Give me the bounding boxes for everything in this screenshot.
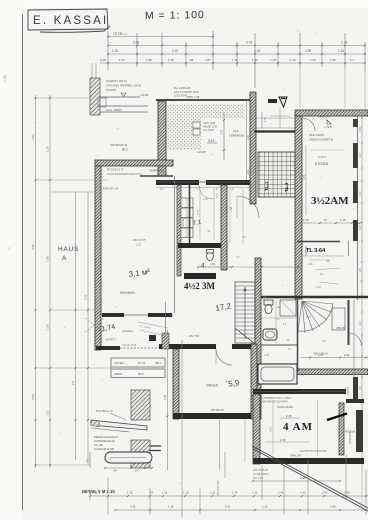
svg-text:LAGE B SCHNITT B: LAGE B SCHNITT B — [309, 138, 333, 142]
svg-text:.40: .40 — [113, 469, 117, 473]
inner dimension vertical x=88 — [87, 192, 89, 465]
dimension marks near handwritten 4 — [198, 266, 232, 268]
svg-text:2.2: 2.2 — [358, 321, 362, 325]
svg-text:2.98: 2.98 — [330, 505, 336, 509]
svg-text:1.10: 1.10 — [262, 505, 268, 509]
svg-text:WG 76/8: WG 76/8 — [189, 334, 200, 338]
svg-text:WOHNEN: WOHNEN — [120, 291, 135, 295]
top dimension line row 4 — [100, 62, 365, 64]
svg-text:4.18: 4.18 — [247, 170, 250, 175]
svg-text:4 AM: 4 AM — [283, 421, 313, 433]
svg-text:1.79 B: 1.79 B — [324, 125, 332, 129]
schnitt W3 hatched wall strip — [90, 78, 100, 115]
svg-text:97.31: 97.31 — [138, 361, 145, 365]
wall lower right wing hatched — [295, 369, 368, 375]
toilet fixture — [207, 251, 214, 260]
svg-text:M = 1: 100: M = 1: 100 — [145, 9, 205, 22]
right dimension vertical — [361, 110, 363, 472]
svg-text:2.6: 2.6 — [358, 268, 362, 272]
svg-text:2.98: 2.98 — [46, 256, 50, 262]
left dimension vertical 1 — [35, 95, 37, 468]
svg-text:DRN 2.17: DRN 2.17 — [318, 115, 331, 119]
kinder bottom wall — [173, 413, 257, 419]
loggia bottom wall — [96, 346, 120, 350]
svg-text:4.35: 4.35 — [130, 505, 136, 509]
svg-text:DRN 104: DRN 104 — [290, 454, 302, 458]
4AM left wall hatched — [253, 394, 260, 464]
right wing left wall hatched — [295, 116, 302, 299]
svg-text:2.5: 2.5 — [46, 410, 50, 415]
svg-text:4½2 3M: 4½2 3M — [184, 281, 216, 291]
svg-text:7,1: 7,1 — [192, 220, 202, 227]
svg-text:FR.DGAS 9.97: FR.DGAS 9.97 — [107, 169, 124, 172]
wall top of terrace block — [156, 99, 256, 101]
corridor dim line extended — [198, 266, 298, 268]
svg-text:3.03: 3.03 — [31, 134, 35, 140]
wall divider right wing — [297, 241, 340, 243]
wc fixture — [264, 300, 273, 305]
4AM room top wall — [253, 389, 346, 394]
stair direction arrow — [244, 287, 246, 339]
right wing interior marks — [310, 259, 330, 261]
4AM top wall step right — [346, 399, 364, 403]
wall mid right wing horizontal — [256, 296, 368, 298]
svg-text:.70: .70 — [323, 218, 327, 222]
svg-text:2.1: 2.1 — [358, 386, 362, 390]
detail sloped slab — [91, 420, 147, 430]
svg-text:1.17: 1.17 — [119, 58, 125, 62]
svg-text:1.35: 1.35 — [308, 263, 313, 266]
svg-text:X-FLUGEN TREPPEN +99.38: X-FLUGEN TREPPEN +99.38 — [106, 84, 141, 88]
svg-text:2.33: 2.33 — [344, 353, 350, 357]
svg-text:LICHTSCHUTZ/PLATTEN: LICHTSCHUTZ/PLATTEN — [300, 450, 327, 453]
svg-text:2.98: 2.98 — [344, 491, 350, 495]
detail pipe capsule — [105, 452, 152, 463]
bathtub — [258, 364, 297, 384]
wohnen left wall hatched — [95, 166, 101, 350]
top dimension line row 1 — [108, 36, 214, 38]
door arc lower right — [349, 333, 362, 346]
title box E. KASSAI — [28, 9, 108, 30]
svg-text:2.38: 2.38 — [286, 414, 292, 418]
svg-text:CAL.IN 23/15: CAL.IN 23/15 — [122, 344, 137, 347]
level table box 2 — [111, 369, 165, 378]
svg-text:CU-ROHR Ø 100: CU-ROHR Ø 100 — [94, 447, 115, 451]
4AM bottom wall — [253, 458, 364, 464]
svg-text:WO ZUST: WO ZUST — [133, 238, 146, 242]
svg-text:+99.38: +99.38 — [140, 93, 149, 97]
svg-text:LOGGIA: LOGGIA — [122, 329, 133, 333]
level table box 1 — [111, 358, 165, 367]
kitchen counter fixtures — [181, 198, 193, 208]
left dimension vertical 2 — [49, 95, 51, 468]
svg-text:1.9: 1.9 — [358, 191, 362, 195]
svg-text:KUCHE: KUCHE — [181, 219, 185, 228]
tiny note lines loggia — [138, 322, 168, 328]
svg-text:1.88: 1.88 — [3, 75, 7, 82]
main dark wall under terrace — [156, 180, 199, 185]
4AM interior vertical lines — [317, 400, 319, 456]
right pier middle segment — [353, 220, 358, 241]
svg-text:1.35: 1.35 — [168, 505, 174, 509]
svg-text:2.1: 2.1 — [320, 273, 324, 276]
svg-text:COLL.PLAT: COLL.PLAT — [174, 95, 188, 98]
svg-text:98.9: 98.9 — [138, 372, 144, 376]
svg-text:A: A — [62, 255, 67, 262]
detail hatched column upper — [131, 390, 150, 420]
svg-text:DRN 7.38: DRN 7.38 — [187, 95, 200, 99]
svg-text:GRN 89° UR: GRN 89° UR — [103, 187, 118, 191]
svg-text:1.15: 1.15 — [340, 218, 346, 222]
svg-text:TERRASSE: TERRASSE — [149, 169, 164, 173]
dark wall kitchen bottom — [178, 243, 222, 248]
svg-text:www. 29/8/N: www. 29/8/N — [106, 108, 122, 112]
terrace dotted surface — [167, 104, 201, 150]
washbasin — [263, 329, 277, 340]
terrace inner dimension vertical — [223, 112, 225, 160]
svg-text:.24: .24 — [134, 469, 138, 473]
svg-text:.74: .74 — [149, 491, 153, 495]
stairwell grid hatch block — [258, 152, 296, 197]
terrace fixture boxes — [193, 122, 200, 128]
svg-text:POLERT: POLERT — [106, 88, 117, 92]
kinder left wall hatched — [173, 349, 179, 419]
dimension vertical x=225 bottom — [224, 452, 226, 478]
wall segment above 4.5 room label — [184, 273, 216, 279]
svg-text:1.18: 1.18 — [270, 58, 276, 62]
stair break line — [235, 328, 255, 344]
svg-text:T.L.1: T.L.1 — [264, 181, 269, 191]
terrace block left wall hatched — [158, 101, 166, 176]
svg-text:2.5: 2.5 — [71, 380, 75, 385]
svg-text:B 939 B: B 939 B — [318, 156, 327, 159]
svg-text:UNTEN -: UNTEN - — [114, 361, 125, 365]
svg-text:2.15: 2.15 — [303, 218, 309, 222]
bottom dimension row A — [253, 480, 340, 482]
svg-text:2.15: 2.15 — [316, 286, 321, 289]
wall stub left of kinder — [149, 335, 156, 341]
svg-text:4.87: 4.87 — [205, 58, 211, 62]
dark bar marker — [268, 99, 277, 103]
top dimension verticals and ticks — [107, 31, 109, 70]
svg-text:5.76: 5.76 — [246, 41, 252, 45]
svg-text:T.L.3: T.L.3 — [284, 182, 289, 192]
door arc kitchen — [237, 196, 259, 218]
svg-text:3½2AM: 3½2AM — [311, 195, 349, 207]
water level symbol — [121, 93, 126, 97]
svg-text:7.08: 7.08 — [31, 394, 35, 400]
svg-text:1.34: 1.34 — [338, 49, 344, 53]
corridor dimension marks — [199, 190, 201, 240]
svg-text:OBEN -: OBEN - — [114, 372, 124, 376]
wc wall vertical hatched — [221, 185, 227, 270]
svg-text:1.74: 1.74 — [232, 491, 238, 495]
svg-text:2.33: 2.33 — [95, 491, 101, 495]
svg-text:RUCK-FENSTERN NUR HOLK: RUCK-FENSTERN NUR HOLK — [107, 173, 142, 176]
top dimension line row 3 — [108, 53, 365, 55]
svg-text:ESSEN: ESSEN — [315, 162, 329, 166]
svg-text:1.08: 1.08 — [230, 207, 233, 212]
svg-text:1.41: 1.41 — [300, 491, 306, 495]
svg-text:1.15: 1.15 — [358, 224, 362, 230]
svg-text:ILA 100: ILA 100 — [94, 443, 103, 447]
vestibule small marks — [261, 112, 263, 128]
wall top of wohnen hatched — [95, 160, 173, 166]
svg-text:ANTRITT: ANTRITT — [105, 338, 116, 342]
svg-text:4.10: 4.10 — [270, 427, 273, 432]
svg-text:1.10: 1.10 — [183, 491, 189, 495]
loggia door swing dashed X — [85, 318, 104, 332]
svg-text:1.05: 1.05 — [247, 135, 250, 140]
svg-text:1.26: 1.26 — [310, 58, 316, 62]
svg-text:1.08: 1.08 — [330, 58, 336, 62]
bottom dimension row B — [90, 495, 368, 497]
svg-text:1.50: 1.50 — [46, 324, 50, 330]
terrace block right boundary line — [246, 100, 248, 180]
svg-text:1.90: 1.90 — [264, 354, 269, 357]
svg-text:1.08: 1.08 — [100, 58, 106, 62]
svg-text:1.10: 1.10 — [290, 58, 296, 62]
svg-text:WHG 76/8/N: WHG 76/8/N — [309, 133, 324, 137]
svg-text:1.05: 1.05 — [264, 117, 267, 122]
svg-text:13.19: 13.19 — [113, 32, 122, 36]
window sill line right wing — [353, 300, 355, 377]
bottom dimension verticals — [89, 490, 91, 500]
vestibule horizontal lines — [256, 117, 295, 119]
svg-text:HAUS: HAUS — [58, 246, 79, 253]
right exterior wall window piers — [353, 119, 358, 127]
bottom dimension row C — [115, 509, 368, 511]
svg-text:UNTEN 97.31: UNTEN 97.31 — [110, 143, 128, 147]
svg-text:WALDICHTIG: WALDICHTIG — [217, 480, 220, 496]
inner dimension vertical x=76 — [75, 192, 77, 460]
svg-text:1.31: 1.31 — [252, 491, 258, 495]
svg-text:KANTE: KANTE — [347, 386, 350, 395]
winder stair left wall — [297, 299, 299, 372]
svg-text:2: 2 — [8, 247, 10, 251]
svg-text:AMSTERD.: AMSTERD. — [349, 431, 352, 444]
svg-text:DB 98H 87: DB 98H 87 — [211, 408, 225, 412]
top dimension line row 2 — [108, 45, 365, 47]
svg-text:1.97: 1.97 — [318, 353, 324, 357]
svg-text:GAR MAUER GLTH/TRA: GAR MAUER GLTH/TRA — [261, 401, 288, 404]
svg-text:1.74: 1.74 — [341, 41, 347, 45]
svg-text:4: 4 — [201, 263, 206, 270]
svg-text:KINDER: KINDER — [206, 384, 219, 388]
svg-text:ABSTR: ABSTR — [336, 326, 345, 330]
svg-text:1.31: 1.31 — [162, 491, 168, 495]
svg-text:FUL 1049 9.25: FUL 1049 9.25 — [174, 87, 191, 90]
svg-text:1.29: 1.29 — [112, 49, 118, 53]
kinder right wall hatched — [251, 344, 257, 419]
svg-text:TL 3-64: TL 3-64 — [306, 248, 326, 254]
wall beside winder stair — [348, 300, 350, 345]
kinder door arc — [216, 349, 232, 365]
scan speckles — [240, 38, 243, 41]
svg-text:SCHNITT W3 31: SCHNITT W3 31 — [106, 79, 127, 83]
dimension row under essen — [300, 222, 360, 224]
svg-text:1.98: 1.98 — [146, 58, 152, 62]
svg-text:FEDER-DACHHAUT: FEDER-DACHHAUT — [94, 435, 118, 439]
svg-text:1.36: 1.36 — [203, 198, 208, 201]
dimension row under winder stair — [300, 357, 368, 359]
dimension vertical x=182 lower — [181, 340, 183, 518]
svg-text:LICHE HOCH: LICHE HOCH — [253, 473, 269, 476]
svg-text:COL 2.04 MONT.WTS: COL 2.04 MONT.WTS — [174, 91, 199, 94]
vestibule wall below stair bay top — [254, 130, 299, 132]
svg-text:1.50: 1.50 — [46, 146, 50, 152]
interior dimension vertical essen — [305, 145, 307, 215]
straight stair flight — [235, 282, 255, 343]
wohnen right pier hatched — [162, 333, 169, 349]
svg-text:5.11: 5.11 — [84, 294, 88, 300]
svg-text:AUSSENKANALE: AUSSENKANALE — [94, 439, 115, 443]
svg-text:2.71: 2.71 — [197, 210, 200, 215]
svg-text:1.05: 1.05 — [358, 126, 362, 132]
funnel marker north arrow — [279, 97, 287, 107]
detail hatched column lower — [131, 440, 150, 468]
stair bay left wall hatched — [250, 92, 256, 204]
svg-text:2 ZI.: 2 ZI. — [136, 243, 142, 247]
svg-text:2.71: 2.71 — [216, 193, 219, 198]
right wing inner divider stub — [348, 241, 350, 256]
short dark lines right of capsule — [150, 445, 161, 447]
svg-text:3.76: 3.76 — [302, 174, 306, 180]
svg-text:A/B NIVELAT: A/B NIVELAT — [253, 469, 268, 472]
right wing top wall hatched — [295, 110, 368, 116]
svg-text:2.47: 2.47 — [220, 129, 224, 135]
left connector y192 — [50, 191, 95, 193]
stair right wall hatched — [255, 258, 261, 419]
svg-text:2.99: 2.99 — [305, 49, 311, 53]
door arc vestibule to essen — [302, 118, 315, 131]
kitchen wall vertical — [177, 185, 181, 276]
4AM far right pier — [356, 410, 363, 452]
svg-text:2.2: 2.2 — [358, 153, 362, 157]
svg-text:SCHLAFEN: SCHLAFEN — [277, 405, 293, 409]
terrace side wall line — [140, 175, 173, 177]
door arc in wohnen top wall gap — [199, 185, 213, 199]
top dim drops to plan — [299, 70, 301, 108]
section diagonal double line — [252, 446, 368, 508]
winder stair closet — [332, 308, 345, 330]
svg-text:3.10: 3.10 — [208, 139, 215, 143]
svg-text:.98: .98 — [189, 58, 194, 62]
svg-text:2.79: 2.79 — [172, 49, 178, 53]
4AM right inner wall hatched — [339, 403, 344, 455]
svg-text:2.28: 2.28 — [163, 394, 167, 400]
schnitt W3 level lines — [100, 96, 140, 98]
wall top of kinder — [159, 344, 216, 349]
essen room faint marks — [310, 149, 344, 151]
svg-text:AUF: AUF — [233, 129, 239, 133]
svg-text:OB 3: OB 3 — [155, 361, 162, 365]
svg-text:+19.38: +19.38 — [197, 150, 206, 154]
svg-text:1.35: 1.35 — [127, 491, 133, 495]
svg-text:2.42: 2.42 — [322, 491, 328, 495]
svg-text:3.43: 3.43 — [133, 41, 139, 45]
svg-text:1.1: 1.1 — [350, 58, 355, 62]
dimension vertical left of kinder — [167, 330, 169, 470]
bath divider wall — [261, 344, 298, 346]
right pier below — [353, 377, 358, 400]
heavy pen stroke — [327, 414, 347, 421]
detail vertical dimension — [89, 452, 91, 468]
svg-text:88.3: 88.3 — [122, 148, 128, 152]
svg-text:6.95: 6.95 — [31, 244, 35, 250]
svg-text:1.05: 1.05 — [306, 316, 311, 319]
svg-text:PUL 89.0+/-0: PUL 89.0+/-0 — [96, 409, 113, 413]
svg-text:1.31: 1.31 — [210, 491, 216, 495]
svg-text:1.91: 1.91 — [278, 491, 284, 495]
wohnen right wall line — [174, 176, 176, 313]
central wall vertical — [189, 185, 191, 243]
svg-text:2.03: 2.03 — [210, 262, 216, 266]
shower square — [280, 300, 296, 316]
svg-text:E. KASSAI: E. KASSAI — [33, 15, 108, 27]
left margin rule — [22, 14, 24, 510]
detail dimension line — [105, 467, 152, 469]
svg-text:2.18: 2.18 — [280, 438, 286, 442]
svg-text:5.31: 5.31 — [225, 505, 231, 509]
left dimension connectors — [35, 97, 108, 99]
svg-text:ALL OVST: ALL OVST — [203, 129, 215, 132]
loggia wall with windows — [101, 314, 173, 316]
svg-text:2.98: 2.98 — [300, 476, 306, 480]
winder stair fan — [298, 301, 302, 331]
svg-text:TERRASSE: TERRASSE — [229, 134, 244, 138]
